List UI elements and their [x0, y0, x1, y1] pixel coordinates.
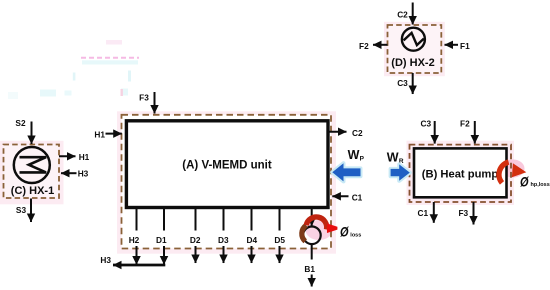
svg-text:D1: D1: [156, 235, 167, 245]
unit B heat pump pink halo: [407, 141, 515, 205]
svg-text:D4: D4: [246, 235, 257, 245]
hp loss red curl arc: [499, 162, 509, 183]
svg-text:F3: F3: [139, 93, 149, 103]
unit C HX-1 white interior: [4, 145, 60, 199]
arrow C2 out of A: [328, 131, 347, 133]
blue arrow WP halo: [332, 163, 360, 181]
bottom stub H2: [136, 209, 138, 231]
svg-text:D3: D3: [218, 235, 229, 245]
svg-text:D2: D2: [190, 235, 201, 245]
phi-loss pink glow: [306, 220, 333, 240]
B1 line below circle: [311, 244, 313, 260]
svg-text:(D) HX-2: (D) HX-2: [391, 57, 434, 69]
unit B solid box: [414, 148, 507, 197]
heat exchanger symbol D wave: [404, 33, 424, 45]
arrow C3 out of D: [412, 73, 414, 94]
svg-text:F1: F1: [460, 41, 470, 51]
svg-text:D5: D5: [274, 235, 285, 245]
arrow F3 into A: [154, 92, 156, 114]
arrow C1 out of B: [433, 202, 435, 223]
phi-loss red arrowhead: [327, 223, 338, 233]
arrow B1 from A to loss circle: [311, 209, 313, 226]
svg-text:F2: F2: [359, 41, 369, 51]
arrow F2 out of D: [373, 44, 388, 46]
heat exchanger symbol C sigma zigzag: [20, 157, 47, 172]
svg-text:S3: S3: [16, 205, 27, 215]
svg-text:W: W: [387, 151, 399, 165]
svg-text:H3: H3: [100, 255, 111, 265]
phi-loss circle: [303, 227, 321, 245]
bottom stub D5: [279, 209, 281, 231]
svg-text:H1: H1: [79, 152, 90, 162]
svg-text:C1: C1: [417, 208, 428, 218]
svg-text:(A) V-MEMD unit: (A) V-MEMD unit: [182, 160, 272, 172]
svg-text:C3: C3: [420, 118, 431, 128]
arrow D1 down to header: [163, 246, 165, 265]
hp loss pink glow: [502, 160, 525, 178]
bottom stub D4: [251, 209, 253, 231]
arrow F2 into B: [474, 121, 476, 144]
unit D dashed border: [388, 25, 442, 73]
unit A dashed border: [122, 115, 332, 249]
svg-text:H1: H1: [94, 130, 105, 140]
phi-loss red curl arc: [306, 217, 327, 230]
bottom stub D1: [163, 209, 165, 231]
svg-text:F2: F2: [460, 118, 470, 128]
arrow H1 out of HX-1: [59, 155, 76, 157]
arrow D5 out: [279, 246, 281, 263]
arrow S3 out of HX-1: [30, 199, 32, 223]
svg-text:F3: F3: [458, 208, 468, 218]
blue arrow WR: [391, 164, 410, 180]
svg-text:C1: C1: [352, 192, 363, 202]
phi-loss curl arc brown tail: [302, 225, 306, 241]
unit A white interior: [122, 115, 332, 249]
faint watermark artifacts top-left: [8, 40, 139, 99]
arrow C3 into B: [434, 121, 436, 144]
svg-text:(B) Heat pump: (B) Heat pump: [422, 169, 499, 181]
heat exchanger symbol C circle: [14, 147, 50, 183]
arrow C2 into D: [412, 3, 414, 25]
hp loss red arrowhead: [512, 163, 526, 177]
unit C HX-1 pink halo: [0, 141, 64, 205]
unit B interior fill: [410, 145, 512, 202]
unit D white interior: [388, 25, 442, 73]
blue arrow WR halo: [391, 164, 410, 180]
heat exchanger symbol D circle: [402, 28, 425, 51]
svg-text:P: P: [360, 156, 365, 163]
arrow S2 into HX-1: [31, 122, 33, 145]
svg-text:C2: C2: [397, 10, 408, 20]
arrow H3 into HX-1: [61, 172, 77, 174]
svg-text:C2: C2: [352, 128, 363, 138]
svg-text:H2: H2: [129, 235, 140, 245]
svg-text:B1: B1: [304, 264, 315, 274]
svg-text:hp,loss: hp,loss: [531, 182, 550, 188]
svg-text:loss: loss: [350, 232, 361, 238]
svg-text:C3: C3: [397, 78, 408, 88]
svg-text:(C) HX-1: (C) HX-1: [11, 185, 54, 197]
H3 header line with left arrow: [113, 264, 165, 267]
arrow D2 out: [195, 246, 197, 263]
svg-text:Ø: Ø: [340, 224, 349, 239]
bottom stub D2: [195, 209, 197, 231]
unit A V-MEMD pink halo: [117, 111, 336, 253]
arrow D3 out: [223, 246, 225, 263]
unit D HX-2 pink halo: [384, 22, 445, 76]
svg-text:W: W: [348, 148, 360, 162]
svg-text:S2: S2: [15, 118, 26, 128]
unit A solid box: [126, 121, 328, 208]
arrow C1 into A: [332, 195, 348, 197]
svg-text:H3: H3: [78, 168, 89, 178]
arrow H2 down to header: [136, 246, 138, 265]
arrow H1 into A: [106, 133, 122, 135]
arrow F3 out of B: [473, 202, 475, 225]
unit B dashed border: [410, 145, 512, 202]
bottom stub D3: [223, 209, 225, 231]
arrow B1 out bottom: [311, 275, 313, 287]
blue arrow WP: [332, 163, 360, 181]
unit C HX-1 dashed border: [4, 145, 60, 199]
svg-text:Ø: Ø: [520, 174, 529, 189]
arrow F1 into D: [445, 44, 459, 46]
arrow D4 out: [251, 246, 253, 263]
